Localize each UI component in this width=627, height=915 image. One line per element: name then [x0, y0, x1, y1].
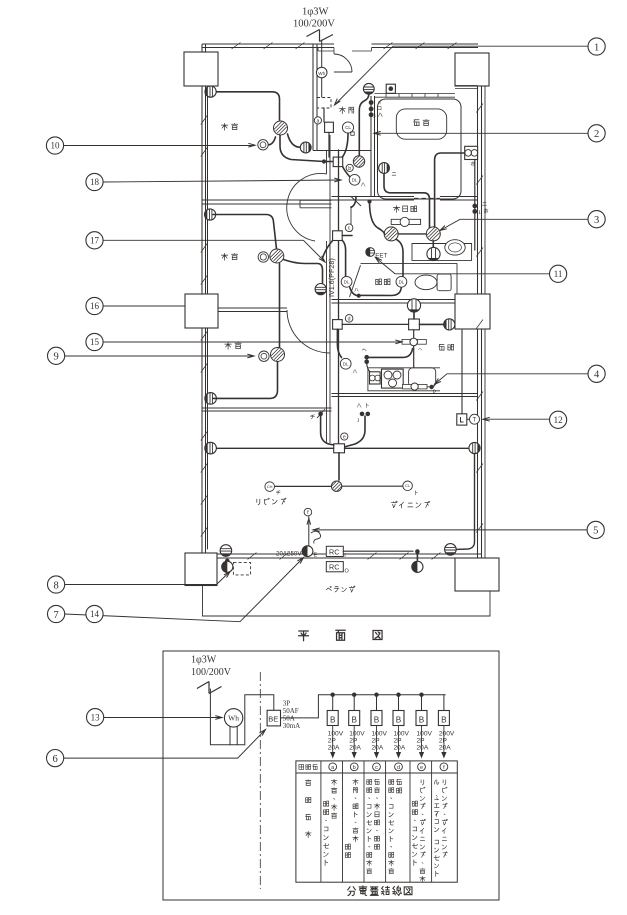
balcony divider right of bath [484, 86, 486, 558]
bottom-left lamp [220, 545, 232, 557]
heading heimenzu [299, 631, 309, 641]
fan washroom [432, 241, 434, 248]
svg-text:12: 12 [554, 415, 563, 425]
svg-text:20A250V: 20A250V [276, 551, 302, 558]
wire c-box to washroom [342, 202, 384, 236]
svg-text:15: 15 [90, 337, 100, 347]
wire yoshitsu1 loop [213, 92, 280, 120]
box b [333, 157, 343, 167]
svg-text:20A: 20A [439, 744, 451, 751]
bus bar [281, 695, 446, 718]
svg-text:Wh: Wh [228, 714, 239, 723]
wall: toilet bottom / kitchen top y=299.5 [332, 300, 456, 304]
receptacle twin box [465, 146, 478, 159]
leader 12 to TV terminal [483, 418, 549, 420]
kitchen switch pair [360, 412, 365, 417]
kitchen lamp [444, 319, 455, 330]
phone outlet box [457, 414, 467, 425]
svg-text:16: 16 [90, 301, 100, 311]
circle f [304, 508, 312, 516]
svg-text:Wh: Wh [318, 71, 325, 76]
svg-text:e: e [420, 765, 423, 771]
svg-text:2P: 2P [394, 737, 403, 744]
kitchen junction box [409, 319, 420, 330]
living CH lamp [265, 482, 275, 492]
wall: genkan left wall x=313 [313, 44, 317, 151]
washitsu rose [268, 345, 288, 365]
svg-text:b: b [348, 166, 351, 172]
svg-text:B: B [330, 716, 336, 725]
BE breaker box [267, 710, 280, 726]
circuit table [296, 761, 457, 882]
bracket light yoshitsu1 left wall [205, 86, 216, 97]
leader 13 to Wh meter [104, 717, 222, 719]
box e [334, 444, 345, 453]
wall: washitsu / living divider y=409 [202, 408, 332, 411]
kitchen faucet switch [402, 339, 411, 344]
washitsu pull lamp [259, 351, 269, 361]
toilet DL left [341, 276, 352, 287]
svg-text:3: 3 [594, 215, 599, 226]
panel boundary dash-dot line [259, 672, 261, 889]
wall: kitchen/dining counter line y=394 [332, 394, 478, 397]
wall segment washroom left x=351 [351, 197, 361, 233]
svg-text:2P: 2P [417, 737, 426, 744]
svg-text:RC: RC [329, 547, 339, 556]
wall: yoshitsu2 / washitsu divider y=309 [218, 308, 287, 312]
svg-text:1: 1 [594, 42, 599, 53]
svg-text:7: 7 [53, 610, 58, 621]
EET outlet [366, 248, 375, 257]
corridor downlight DL [349, 174, 360, 185]
wall: genkan/bath boundary x=371 [371, 96, 375, 197]
svg-text:a: a [316, 118, 319, 124]
svg-text:E: E [314, 553, 318, 559]
svg-text:d: d [397, 765, 400, 771]
veranda outline [203, 586, 491, 617]
laundry counter [412, 244, 472, 261]
row label 負荷名称 [305, 780, 311, 786]
dining CL lamp [403, 481, 413, 491]
cell b text [353, 779, 359, 785]
breaker B3 [374, 693, 378, 697]
bathtub [396, 109, 446, 139]
wire receptacle to washroom rose [435, 153, 465, 228]
pillar top-right [455, 53, 489, 86]
counter outline [368, 368, 440, 391]
door arc yoshitsu2 [287, 174, 327, 241]
pillar / closet mid-left [185, 294, 218, 328]
bottom wire f-circuit [343, 550, 413, 552]
box d [333, 320, 343, 330]
breaker B1 [331, 693, 335, 697]
leader 15 to kitchen switch [104, 341, 403, 343]
circle a [314, 117, 321, 124]
text daidokoro [439, 344, 444, 350]
wall: toilet top y=263.4 [361, 262, 458, 264]
svg-text:CL: CL [405, 483, 411, 488]
bracket light right wall dining [469, 442, 480, 453]
svg-text:d: d [348, 316, 351, 322]
wire: left-wall vertical run [207, 92, 209, 549]
bath room outline [378, 99, 462, 199]
bracket light living left [205, 442, 217, 454]
rose yoshitsu2 [267, 246, 287, 266]
genkan text 玄関 [339, 107, 345, 114]
svg-text:17: 17 [90, 236, 100, 246]
wall hatch ticks [201, 43, 483, 560]
corridor conduit trunk [338, 150, 340, 443]
heading bundenban [348, 887, 356, 896]
lamp yoshitsu2 [315, 284, 326, 295]
rose washroom 2 [398, 233, 426, 235]
switch-pull lamp small circle (target of 10) [258, 140, 268, 150]
svg-text:B: B [396, 716, 402, 725]
circle e [341, 433, 348, 440]
ceiling rose yoshitsu1 [271, 118, 291, 138]
svg-text:9: 9 [53, 352, 58, 363]
svg-text:B: B [351, 716, 357, 725]
svg-text:2P: 2P [328, 737, 337, 744]
wall: corridor left x=326.5 [327, 135, 331, 443]
breaker B4 [396, 693, 400, 697]
leader 1 to distribution board [335, 46, 589, 105]
svg-text:2P: 2P [372, 737, 381, 744]
svg-text:30mA: 30mA [283, 722, 301, 730]
svg-text:B: B [441, 716, 447, 725]
lamp on genkan wall [300, 142, 311, 153]
wall: yoshitsu1 / yoshitsu2 divider y=200 [202, 200, 332, 204]
waterproof outlet below wall left [225, 559, 230, 564]
wall: top outer [202, 44, 334, 48]
pull circle yoshitsu2 [258, 252, 268, 262]
box c [333, 231, 343, 241]
genkan ceiling light CL [342, 122, 353, 133]
porch lamp wire [359, 94, 369, 155]
TV terminal T [470, 414, 480, 424]
svg-text:DL: DL [344, 279, 350, 284]
bracket light yoshitsu2 [205, 209, 216, 220]
pillar bottom-right [455, 558, 499, 591]
cell e text [421, 780, 424, 785]
svg-text:14: 14 [90, 609, 100, 619]
leader 3 to washroom rose [440, 219, 588, 230]
wall: toilet right x=457 [456, 263, 458, 299]
text senmenjo [393, 206, 399, 213]
washer oval [445, 240, 465, 255]
kitchen fan [407, 299, 420, 312]
living wire across [213, 447, 334, 449]
wire bath lamp down [384, 174, 430, 232]
breaker B6 [443, 695, 445, 711]
svg-text:20A: 20A [394, 744, 406, 751]
bath text 浴室 [414, 120, 419, 126]
svg-text:20A: 20A [372, 744, 384, 751]
laundry counter top strip [375, 94, 456, 98]
text yoshitsu2 [221, 253, 228, 260]
svg-text:20A: 20A [417, 744, 429, 751]
leader 11 to EET [376, 258, 550, 274]
svg-text:RC: RC [329, 563, 339, 572]
genkan step line [313, 150, 371, 152]
text veranda [326, 586, 331, 590]
3-switch cluster bath wall [369, 100, 374, 105]
leader 17 to conduit [104, 240, 326, 262]
svg-text:DL: DL [399, 279, 405, 284]
leader 18 to corridor DL [104, 180, 342, 182]
svg-text:20A: 20A [349, 744, 361, 751]
svg-text:100/200V: 100/200V [293, 19, 335, 30]
text dining [391, 501, 397, 508]
dashed future box [233, 563, 250, 575]
wall: bottom outer [202, 554, 482, 558]
text living [257, 499, 260, 505]
svg-text:T: T [473, 417, 477, 423]
svg-text:5: 5 [593, 526, 598, 537]
kitchen counter: sink [409, 368, 436, 387]
svg-text:e: e [343, 434, 346, 440]
svg-text:4: 4 [594, 370, 600, 381]
bath bracket light [379, 163, 390, 174]
wall: washroom top y=196.5 [332, 197, 478, 201]
svg-text:ρ: ρ [433, 388, 436, 395]
svg-text:CH: CH [267, 484, 273, 489]
watt-hour meter Wh [316, 67, 327, 78]
breaker B2 [352, 693, 356, 697]
svg-text:100V: 100V [394, 730, 410, 737]
pillar bottom-left [185, 553, 217, 586]
text benjo [376, 279, 382, 285]
toilet fixture [415, 275, 437, 290]
circle d [345, 315, 353, 323]
svg-text:20A: 20A [328, 744, 340, 751]
rose washroom 1 [381, 224, 401, 244]
leader 5 to f-wire [313, 529, 587, 531]
svg-text:100/200V: 100/200V [191, 667, 232, 678]
kitchen counter: stove [382, 369, 404, 388]
leader 10 to pull lamp [64, 145, 256, 147]
leader 16 to closet box [104, 305, 186, 307]
bracket light washitsu left [205, 393, 217, 405]
svg-text:DL: DL [352, 177, 358, 182]
svg-text:c: c [375, 765, 378, 771]
svg-text:8: 8 [53, 580, 58, 591]
circle b [346, 164, 353, 171]
svg-text:1φ3W: 1φ3W [191, 655, 217, 666]
wall: right outer [478, 53, 482, 558]
aircon RC outdoor [326, 562, 343, 572]
leader 7 and 14 to 250V outlet [65, 558, 304, 622]
wall: toilet slant door [350, 265, 361, 297]
leader 6 to BE breaker [64, 730, 266, 759]
text washitsu [225, 342, 232, 349]
he switch dots [364, 355, 369, 360]
washitsu door arc [287, 310, 330, 353]
leader 2 to bath switches [374, 132, 588, 134]
svg-text:O: O [345, 569, 350, 575]
kitchen DL [340, 358, 351, 369]
svg-text:B: B [419, 716, 425, 725]
svg-text:6: 6 [52, 754, 57, 765]
aircon RC indoor [326, 546, 343, 556]
junction dot [322, 159, 326, 163]
svg-text:10: 10 [51, 141, 61, 151]
svg-text:18: 18 [90, 177, 100, 187]
svg-text:2P: 2P [439, 737, 448, 744]
svg-text:CL: CL [345, 125, 351, 130]
svg-text:100V: 100V [417, 730, 433, 737]
svg-text:11: 11 [554, 269, 563, 279]
svg-text:13: 13 [91, 712, 101, 722]
bottom-right lamp [445, 544, 457, 556]
service drop zigzag [307, 30, 334, 42]
wall: left outer [202, 44, 206, 558]
box a [325, 122, 334, 132]
svg-text:c: c [348, 226, 351, 232]
leader 9 to washitsu lamp [65, 355, 255, 357]
table header 回路名 [299, 765, 304, 770]
chi switch [318, 412, 323, 417]
distribution board dashed box [317, 98, 331, 109]
breaker B5 [419, 693, 423, 697]
leader 8 to waterproof outlet [65, 572, 231, 585]
toilet DL right [396, 276, 407, 287]
panel outer box [163, 651, 499, 900]
porch lamp [363, 83, 374, 94]
svg-text:2P: 2P [349, 737, 358, 744]
svg-text:b: b [353, 765, 356, 771]
svg-text:1φ3W: 1φ3W [302, 7, 329, 18]
washroom door dashes [414, 196, 440, 201]
panel service wires [210, 689, 273, 745]
svg-text:100V: 100V [328, 730, 344, 737]
svg-text:BE: BE [268, 715, 278, 724]
pipe shaft right of toilet [455, 294, 490, 329]
svg-text:DL: DL [343, 361, 349, 366]
cell d text [397, 779, 402, 784]
svg-text:100V: 100V [372, 730, 388, 737]
svg-text:B: B [374, 716, 380, 725]
ceiling rose near b [351, 153, 367, 169]
text yoshitsu1 [221, 123, 228, 130]
panel Wh meter [230, 727, 237, 745]
washbasin [391, 219, 420, 224]
cell c text [375, 779, 380, 784]
svg-text:2: 2 [594, 129, 599, 140]
panel zigzag [197, 682, 222, 694]
cell a text [331, 779, 337, 785]
leader 4 to kitchen counter outlet [435, 374, 589, 385]
cell f text [443, 780, 446, 785]
svg-text:200V: 200V [439, 730, 455, 737]
circle c [345, 224, 353, 232]
curly cord to RC [311, 531, 321, 543]
genkan door arc [334, 54, 352, 72]
living rose [329, 479, 344, 494]
waterproof outlet right [416, 552, 418, 561]
svg-text:IV1.6(PF28): IV1.6(PF28) [327, 258, 336, 297]
svg-text:100V: 100V [349, 730, 365, 737]
kitchen counter: outlet box [370, 372, 381, 384]
doorbell box [386, 84, 395, 93]
pillar top-left [184, 52, 218, 86]
svg-text:3: 3 [373, 114, 376, 120]
